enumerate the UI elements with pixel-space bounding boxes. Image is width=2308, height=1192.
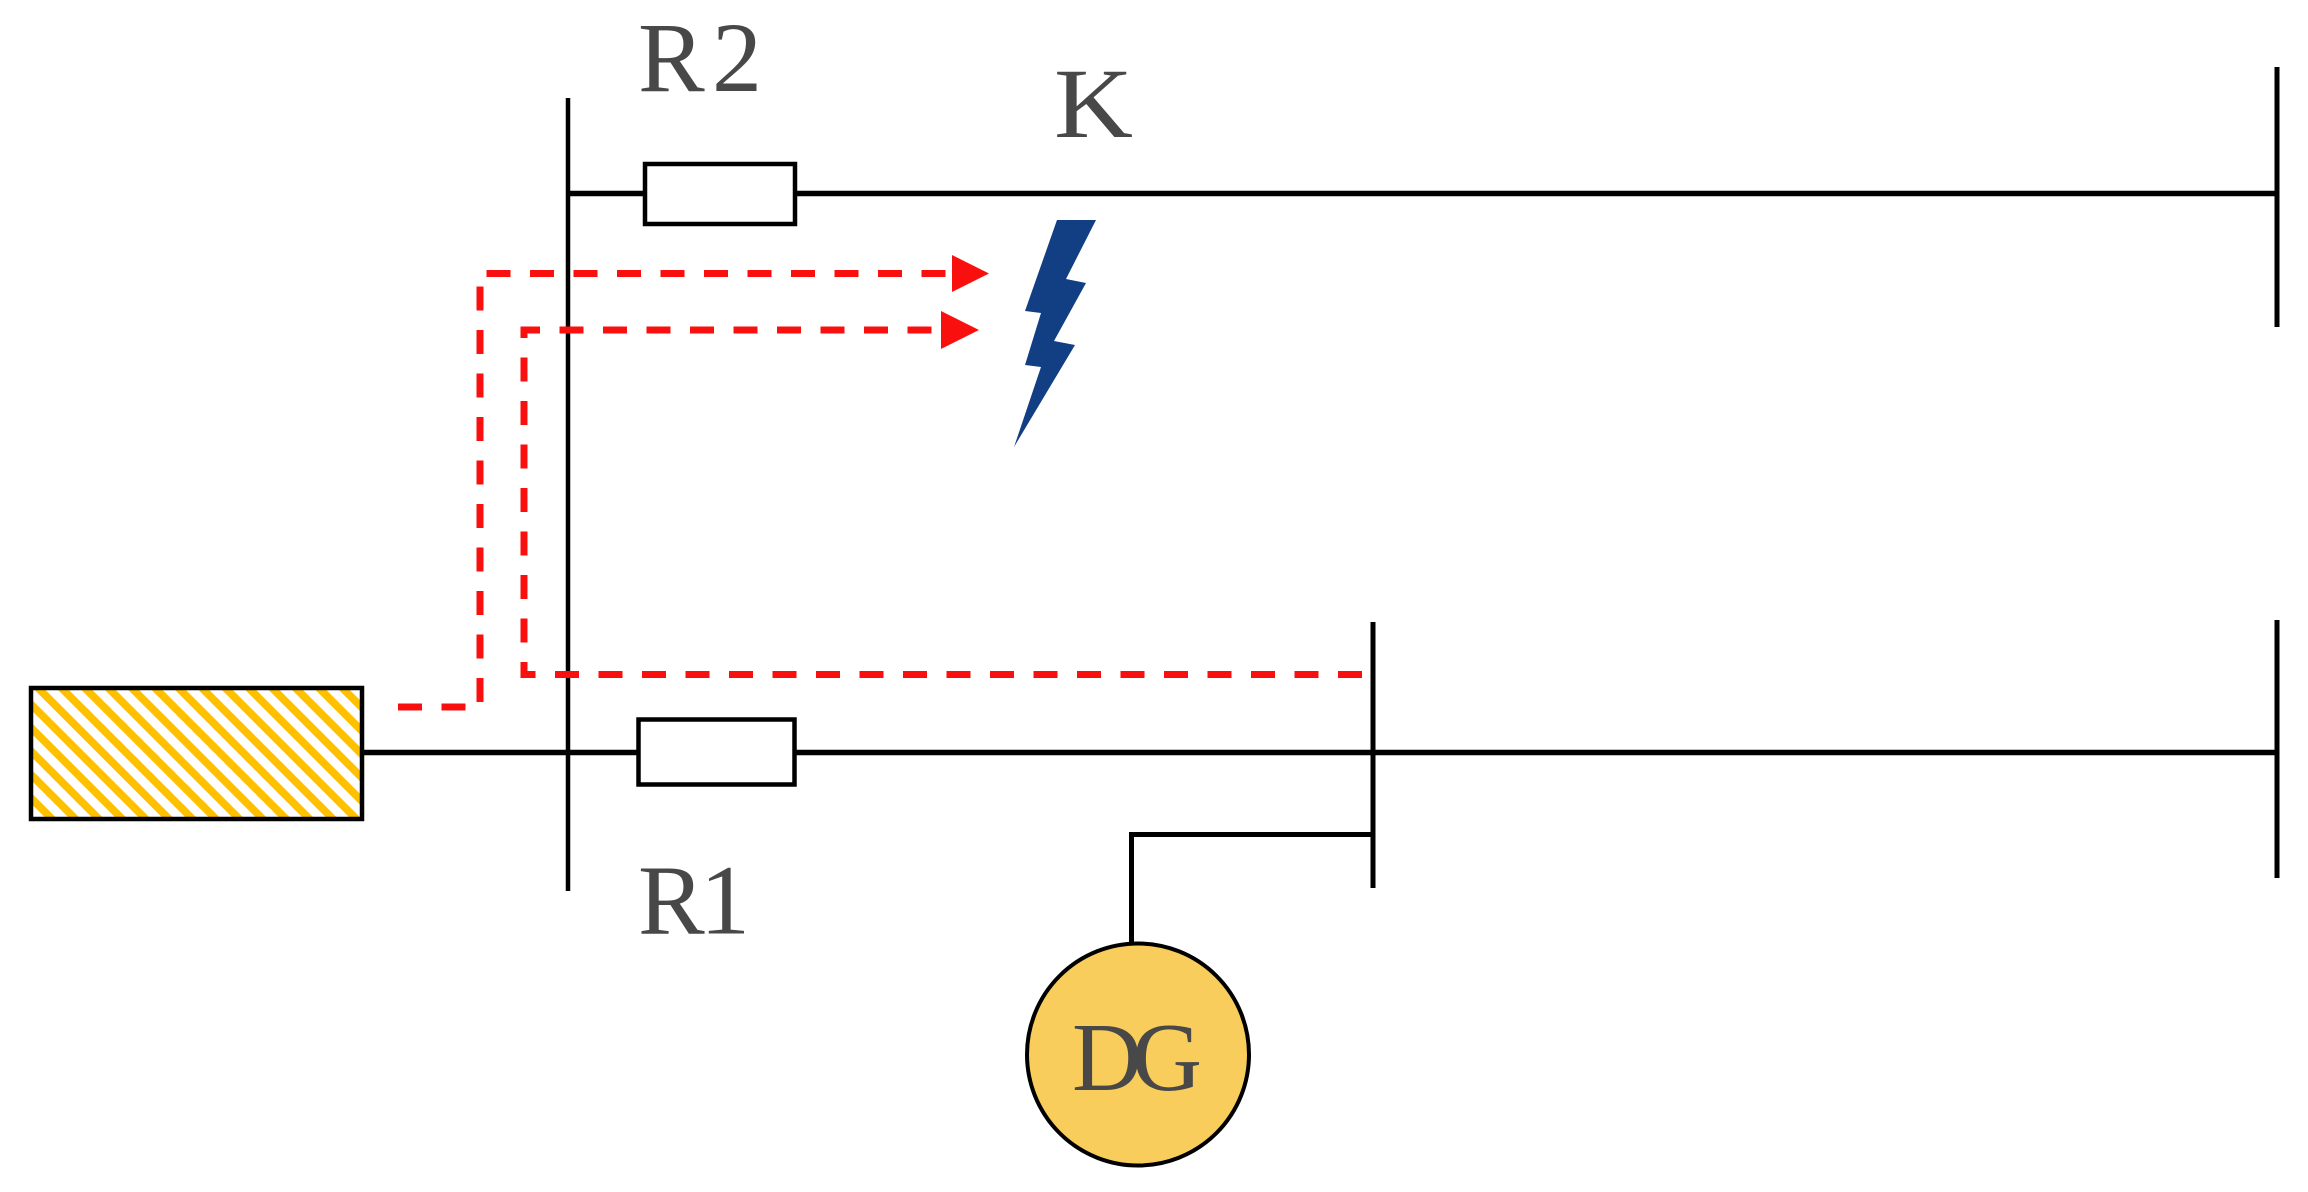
generator DG (distributed generator circle) [1027,944,1249,1166]
bus: remote end of line 2 (top right bar) [2275,67,2280,327]
fault current path 1 from grid (red dashed arrow) [398,255,989,707]
svg-text:R2: R2 [638,2,762,113]
fault current path 2 from DG (red dashed arrow) [524,311,1362,675]
relay R2 box [645,164,795,224]
svg-text:K: K [1054,48,1133,159]
wire: DG tap horizontal [1131,832,1373,837]
bus: substation bus [566,98,571,891]
grid source / external system equivalent (hatched box) [31,688,362,819]
wire: upper feeder line 2 [568,191,2277,197]
fault K (lightning bolt) [1014,220,1096,447]
wire: lower feeder line 1 [364,750,2277,756]
wire: DG tap vertical [1129,832,1134,945]
bus: DG interconnection bus (middle bar) [1371,622,1376,888]
relay R1 box [639,720,795,785]
bus: remote end of line 1 (bottom right bar) [2275,620,2280,878]
svg-text:R1: R1 [638,845,750,956]
svg-text:DG: DG [1072,1004,1202,1111]
